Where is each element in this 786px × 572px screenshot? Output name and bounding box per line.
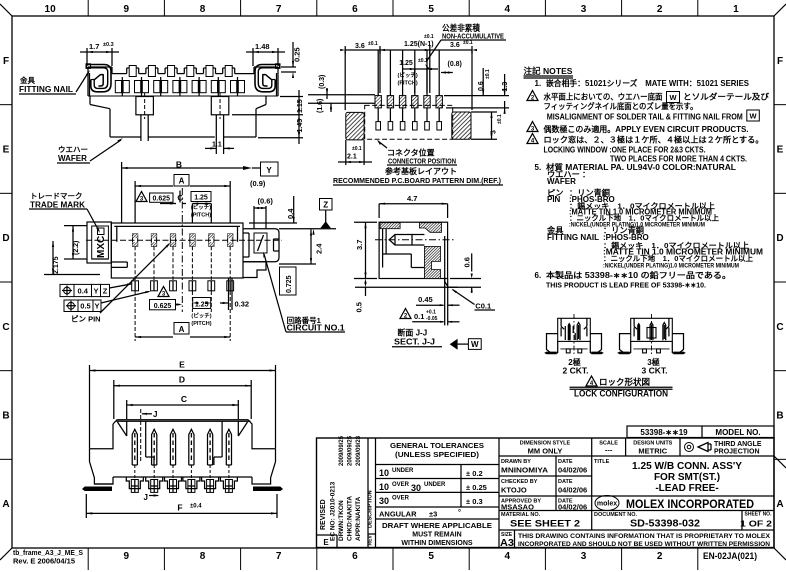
svg-text:W: W [749, 112, 757, 121]
svg-text:1.15: 1.15 [297, 99, 304, 113]
svg-text:(0.8): (0.8) [448, 61, 462, 68]
svg-text:9: 9 [124, 551, 130, 562]
svg-text:1 OF 2: 1 OF 2 [740, 520, 773, 529]
svg-text:10: 10 [379, 482, 389, 492]
svg-text:MATERIAL NO.: MATERIAL NO. [501, 512, 541, 518]
svg-text:FITTING NAIL: FITTING NAIL [19, 85, 73, 94]
svg-text:ANGULAR: ANGULAR [379, 510, 417, 519]
svg-text:UNDER: UNDER [424, 482, 446, 488]
svg-text:(2.2): (2.2) [73, 241, 80, 255]
svg-text:MODEL NO.: MODEL NO. [715, 428, 760, 437]
svg-text:EN-02JA(021): EN-02JA(021) [703, 551, 757, 562]
svg-text:4: 4 [505, 551, 511, 562]
svg-text:WAFER: WAFER [547, 177, 576, 186]
svg-text:DOCUMENT NO.: DOCUMENT NO. [594, 512, 638, 518]
svg-text:DRAFT WHERE APPLICABLE: DRAFT WHERE APPLICABLE [382, 523, 492, 530]
svg-text:10: 10 [379, 468, 389, 478]
svg-text:±0.1: ±0.1 [424, 34, 434, 40]
svg-text:1.48: 1.48 [255, 42, 270, 51]
svg-text:とソルダーテール及び: とソルダーテール及び [683, 92, 770, 102]
svg-text::NICKEL(UNDER PLATING)1.0 MICR: :NICKEL(UNDER PLATING)1.0 MICROMETER MIN… [603, 263, 739, 270]
svg-text:0.4: 0.4 [286, 208, 295, 219]
svg-text:OVER: OVER [392, 496, 410, 502]
svg-text:GENERAL TOLERANCES: GENERAL TOLERANCES [390, 441, 484, 450]
svg-text:DATE: DATE [558, 479, 573, 485]
svg-text:30: 30 [379, 496, 389, 506]
svg-text:2: 2 [657, 551, 663, 562]
svg-text:(0.9): (0.9) [250, 179, 266, 188]
svg-text:INCORPORATED AND SHOULD NOT BE: INCORPORATED AND SHOULD NOT BE USED WITH… [518, 541, 770, 548]
svg-text:METRIC: METRIC [638, 447, 667, 456]
svg-text:1.25: 1.25 [194, 195, 208, 202]
svg-text:CHECKED BY: CHECKED BY [501, 479, 538, 485]
svg-text:THIS DRAWING CONTAINS INFORMAT: THIS DRAWING CONTAINS INFORMATION THAT I… [518, 533, 770, 540]
svg-text:OVER: OVER [392, 482, 410, 488]
svg-text:TRADE MARK: TRADE MARK [30, 201, 85, 210]
svg-text:参考基板レイアウト: 参考基板レイアウト [384, 166, 457, 176]
svg-text:±0.3: ±0.3 [103, 42, 114, 48]
svg-text:J: J [144, 493, 148, 502]
svg-text:3: 3 [491, 130, 498, 134]
svg-text:0.725: 0.725 [286, 275, 293, 293]
svg-text:トレードマーク: トレードマーク [30, 191, 83, 201]
svg-text:4.7: 4.7 [407, 194, 417, 203]
svg-text:注記 NOTES: 注記 NOTES [524, 66, 573, 76]
svg-text:0.625: 0.625 [154, 303, 172, 310]
svg-text:---: --- [605, 446, 613, 455]
svg-text:1.: 1. [535, 79, 542, 88]
svg-text:LOCKING WINDOW :ONE PLACE FOR: LOCKING WINDOW :ONE PLACE FOR 2&3 CKTS. [544, 146, 706, 155]
svg-text:PROJECTION: PROJECTION [714, 449, 760, 456]
svg-text:APPR:NAKITA: APPR:NAKITA [355, 496, 362, 541]
svg-text:± 0.25: ± 0.25 [466, 483, 487, 492]
svg-text:04/02/06: 04/02/06 [558, 466, 587, 475]
svg-text:(PITCH): (PITCH) [191, 213, 211, 219]
svg-text:MUST REMAIN: MUST REMAIN [412, 532, 461, 539]
svg-text:A: A [776, 499, 783, 510]
svg-text:F: F [3, 56, 9, 67]
svg-text:DESCRIPTION: DESCRIPTION [368, 490, 374, 528]
svg-text:REV: REV [368, 535, 374, 546]
svg-text:WAFER: WAFER [58, 154, 87, 163]
svg-text:(UNLESS SPECIFIED): (UNLESS SPECIFIED) [395, 450, 480, 459]
svg-text:SECT. J-J: SECT. J-J [394, 337, 435, 347]
svg-text:6.: 6. [535, 271, 542, 280]
svg-text:D: D [776, 233, 783, 244]
svg-text:(1.6): (1.6) [317, 99, 324, 113]
svg-text:REVISED: REVISED [320, 499, 327, 530]
svg-text:C: C [776, 322, 783, 333]
svg-text:0.5: 0.5 [80, 302, 90, 311]
svg-text:2.175: 2.175 [53, 256, 60, 274]
svg-text:6: 6 [352, 4, 358, 15]
svg-text:FOR SMT(ST.): FOR SMT(ST.) [654, 472, 720, 483]
svg-text:5: 5 [428, 4, 434, 15]
svg-text:0.45: 0.45 [418, 295, 433, 304]
svg-text:F: F [777, 56, 783, 67]
svg-text:DRWN:TKON: DRWN:TKON [338, 500, 345, 541]
svg-text:LOCK CONFIGURATION: LOCK CONFIGURATION [574, 389, 668, 400]
svg-text:8: 8 [200, 551, 206, 562]
svg-text:Z: Z [103, 287, 108, 296]
svg-text:ピン PIN: ピン PIN [71, 314, 101, 324]
svg-text:KTOJO: KTOJO [501, 486, 527, 495]
svg-text:3: 3 [581, 4, 587, 15]
svg-text:2009/09/28: 2009/09/28 [356, 435, 362, 466]
svg-text:(0.6): (0.6) [258, 197, 274, 206]
svg-text:±0.1: ±0.1 [485, 69, 491, 79]
svg-text:0.6: 0.6 [478, 81, 485, 91]
svg-text:SD-53398-032: SD-53398-032 [630, 519, 700, 530]
svg-text:(ピッチ): (ピッチ) [191, 203, 211, 211]
svg-text:金具: 金具 [19, 75, 35, 85]
svg-text:5.: 5. [535, 163, 542, 172]
svg-text:RECOMMENDED P.C.BOARD PATTERN: RECOMMENDED P.C.BOARD PATTERN DIM.(REF.) [333, 176, 501, 185]
svg-text:±0.1: ±0.1 [368, 41, 378, 47]
svg-text:tb_frame_A3_J_ME_S: tb_frame_A3_J_ME_S [13, 550, 83, 557]
svg-text:04/02/06: 04/02/06 [558, 486, 587, 495]
svg-text:W: W [669, 93, 677, 102]
svg-text:0.32: 0.32 [235, 300, 250, 309]
svg-text:水平面上においての、ウエハー底面: 水平面上においての、ウエハー底面 [544, 92, 663, 102]
svg-text:A: A [2, 499, 9, 510]
svg-text:2: 2 [657, 4, 663, 15]
svg-text:CIRCUIT NO.1: CIRCUIT NO.1 [287, 324, 346, 333]
svg-text:W: W [471, 340, 479, 349]
svg-text:D: D [179, 375, 185, 385]
svg-text:9: 9 [124, 4, 130, 15]
svg-text:±0.4: ±0.4 [190, 504, 202, 510]
svg-text:嵌合相手：51021シリーズ MATE WITH：51021: 嵌合相手：51021シリーズ MATE WITH：51021 SERIES [546, 78, 750, 88]
svg-text:0.6: 0.6 [463, 257, 472, 267]
svg-text:B: B [176, 160, 182, 170]
svg-text:MM ONLY: MM ONLY [528, 447, 563, 456]
svg-text:+0.1: +0.1 [426, 310, 436, 316]
svg-text:0.25: 0.25 [293, 47, 302, 62]
svg-text:1.7: 1.7 [89, 42, 99, 51]
svg-text:3: 3 [581, 551, 587, 562]
svg-text:DATE: DATE [558, 459, 573, 465]
svg-text:1: 1 [733, 4, 739, 15]
svg-text:CONNECTOR POSITION: CONNECTOR POSITION [388, 157, 456, 166]
svg-text:CHKD:NAKITA: CHKD:NAKITA [347, 496, 354, 541]
svg-text:2.4: 2.4 [315, 243, 324, 254]
svg-text:6: 6 [352, 551, 358, 562]
svg-text:7: 7 [276, 551, 282, 562]
svg-text:C: C [2, 322, 9, 333]
svg-text:PIN: PIN [547, 195, 561, 204]
svg-text:2.1: 2.1 [347, 154, 357, 161]
svg-text:SEE SHEET 2: SEE SHEET 2 [510, 519, 580, 530]
svg-text:2 CKT.: 2 CKT. [563, 366, 589, 376]
svg-text:MOLEX INCORPORATED: MOLEX INCORPORATED [626, 499, 754, 511]
svg-text:フィッティングネイル底面とのズレ量を示す。: フィッティングネイル底面とのズレ量を示す。 [544, 101, 698, 111]
svg-text:E: E [179, 360, 185, 370]
svg-text:Y: Y [93, 287, 98, 296]
svg-text:10: 10 [45, 4, 57, 15]
svg-text:偶数極このみ適用。APPLY EVEN CIRCUIT PR: 偶数極このみ適用。APPLY EVEN CIRCUIT PRODUCTS. [543, 124, 749, 134]
svg-text:± 0.2: ± 0.2 [466, 469, 483, 478]
svg-text:molex: molex [597, 501, 617, 508]
svg-text:本製品は 53398-∗∗10 の鉛フリー品である。: 本製品は 53398-∗∗10 の鉛フリー品である。 [546, 270, 731, 280]
svg-text:Rev. E 2006/04/15: Rev. E 2006/04/15 [13, 559, 75, 566]
svg-text:Z: Z [323, 201, 328, 210]
svg-text:3.6: 3.6 [450, 42, 460, 49]
svg-text:2009/09/25: 2009/09/25 [348, 435, 354, 466]
svg-text:FITTING NAIL: FITTING NAIL [547, 233, 599, 242]
svg-text:B: B [776, 411, 783, 422]
svg-text:EC NO: J2010-0213: EC NO: J2010-0213 [330, 481, 337, 541]
svg-text:：ニックル下地 1．0マイクロメートル以上: ：ニックル下地 1．0マイクロメートル以上 [603, 253, 753, 263]
svg-text:UNDER: UNDER [392, 468, 414, 474]
svg-text:J: J [153, 410, 157, 419]
svg-text:D: D [2, 233, 9, 244]
svg-text:SHEET NO.: SHEET NO. [745, 512, 773, 518]
svg-text:C0.1: C0.1 [475, 301, 491, 310]
svg-text:3 CKT.: 3 CKT. [642, 366, 668, 376]
svg-text:1.45: 1.45 [297, 119, 304, 133]
svg-text:MNINOMIYA: MNINOMIYA [501, 466, 549, 475]
svg-text:Y: Y [94, 302, 99, 311]
svg-text:THIRD ANGLE: THIRD ANGLE [714, 441, 762, 448]
svg-text:4: 4 [505, 4, 511, 15]
svg-text:E: E [3, 145, 10, 156]
svg-text:Y: Y [266, 166, 272, 175]
svg-text:ウエハー: ウエハー [58, 145, 88, 154]
svg-text:1.25(N-1): 1.25(N-1) [404, 41, 434, 48]
svg-text:(PITCH): (PITCH) [191, 321, 211, 327]
svg-text:1.25 W/B CONN. ASS'Y: 1.25 W/B CONN. ASS'Y [632, 461, 742, 472]
svg-text:WITHIN DIMENSIONS: WITHIN DIMENSIONS [401, 540, 472, 547]
svg-text:MXC: MXC [96, 236, 107, 258]
svg-text:(ピッチ): (ピッチ) [191, 312, 211, 320]
svg-text:0.1: 0.1 [414, 312, 424, 321]
svg-text:1.25: 1.25 [399, 60, 413, 67]
svg-text:±0.1: ±0.1 [463, 40, 473, 46]
svg-text:B: B [2, 411, 9, 422]
svg-text:E: E [323, 538, 329, 547]
svg-text:-0.05: -0.05 [426, 316, 438, 322]
svg-text:0.5: 0.5 [355, 302, 364, 312]
svg-text:0.625: 0.625 [153, 196, 171, 203]
svg-text:E: E [777, 145, 784, 156]
svg-text:A: A [179, 325, 185, 334]
svg-text:2009/09/25: 2009/09/25 [339, 435, 345, 466]
svg-text:3.7: 3.7 [355, 240, 364, 250]
svg-text:MISALIGNMENT OF SOLDER TAIL &: MISALIGNMENT OF SOLDER TAIL & FITTING NA… [547, 113, 743, 122]
svg-text:NON-ACCUMULATIVE: NON-ACCUMULATIVE [442, 32, 504, 41]
svg-text:8: 8 [200, 4, 206, 15]
svg-text:±3: ±3 [429, 510, 437, 519]
svg-text:±0.1: ±0.1 [352, 146, 362, 152]
svg-text:5: 5 [428, 551, 434, 562]
svg-text:A: A [179, 177, 185, 186]
svg-text:30: 30 [411, 483, 421, 493]
svg-text:A3: A3 [500, 538, 514, 549]
svg-text:3.6: 3.6 [355, 43, 365, 50]
svg-text:C: C [181, 394, 187, 404]
svg-text:°: ° [458, 508, 461, 517]
svg-text:(0.3): (0.3) [319, 75, 326, 89]
svg-text:TITLE: TITLE [594, 459, 610, 465]
svg-text:± 0.3: ± 0.3 [466, 497, 483, 506]
svg-text:DRAWN BY: DRAWN BY [501, 459, 531, 465]
svg-text:-LEAD FREE-: -LEAD FREE- [655, 483, 718, 494]
svg-text:THIS PRODUCT IS LEAD FREE OF 5: THIS PRODUCT IS LEAD FREE OF 53398-∗∗10. [546, 281, 706, 290]
svg-text:ロック形状図: ロック形状図 [599, 377, 650, 387]
svg-text:1.1: 1.1 [212, 142, 222, 149]
svg-text:±0.1: ±0.1 [497, 114, 503, 124]
svg-text:0.4: 0.4 [78, 287, 89, 296]
svg-text:53398-∗∗19: 53398-∗∗19 [640, 428, 688, 437]
svg-text:7: 7 [276, 4, 282, 15]
svg-text:F: F [177, 503, 182, 513]
svg-text:ロック窓は、２、３極は１ケ所、４極以上は２ケ所とする。: ロック窓は、２、３極は１ケ所、４極以上は２ケ所とする。 [544, 135, 764, 145]
